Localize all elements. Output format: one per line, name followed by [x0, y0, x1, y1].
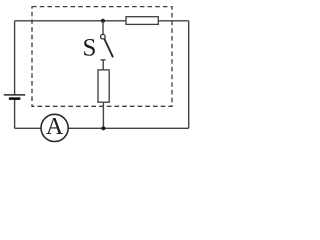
battery: long positive plate	[4, 94, 26, 96]
resistor R2 (vertical)	[98, 70, 109, 102]
wire (resistor R2 down to bottom junction)	[102, 102, 104, 128]
battery: short thick negative plate	[9, 97, 21, 100]
wire (bottom, right of junction to ammeter)	[68, 127, 189, 129]
svg-text:A: A	[46, 114, 64, 140]
node (top junction)	[101, 19, 105, 23]
resistor R1	[126, 17, 158, 25]
switch S: pivot circle	[101, 34, 106, 39]
node (bottom junction)	[101, 126, 105, 130]
ammeter A: body circle	[41, 114, 68, 141]
wire (top, right of resistor R1)	[158, 20, 188, 22]
wire (right side)	[188, 21, 190, 129]
switch S: open blade	[104, 39, 113, 57]
wire (bottom, ammeter to left corner)	[15, 127, 41, 129]
switch S: lower contact tick	[101, 59, 106, 61]
wire (left side, above battery)	[14, 21, 16, 95]
wire (junction down to switch pivot)	[102, 21, 104, 35]
svg-text:S: S	[82, 35, 96, 62]
wire (top, left of resistor R1)	[15, 20, 126, 22]
dashed box (black box outline)	[32, 7, 172, 107]
wire (left side, below battery)	[14, 99, 16, 129]
wire (switch contact down to resistor R2)	[102, 60, 104, 70]
